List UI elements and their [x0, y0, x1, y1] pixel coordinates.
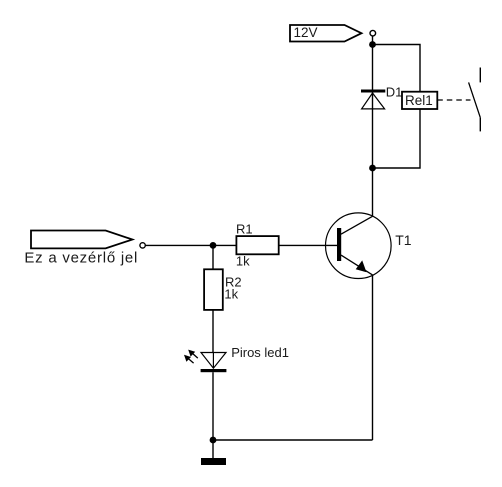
svg-text:D1: D1 — [386, 85, 403, 100]
wire input to junction — [145, 244, 213, 246]
ground — [201, 458, 226, 465]
LED Piros led1 — [201, 353, 227, 373]
wire R2 to LED — [212, 310, 214, 353]
LED light arrows — [184, 350, 198, 364]
wire R1 to base — [279, 244, 337, 246]
terminal pin 12V — [370, 30, 376, 36]
svg-text:12V: 12V — [294, 25, 318, 40]
wire ground junction to emitter — [213, 439, 373, 441]
wire 12V pin to junction — [372, 36, 374, 45]
wire relay bottom to junction — [373, 109, 421, 168]
svg-text:1k: 1k — [236, 253, 250, 268]
svg-text:Piros led1: Piros led1 — [231, 345, 289, 360]
wire junction to R2 — [212, 245, 214, 269]
junction top — [369, 41, 376, 48]
relay coil Rel1 — [402, 92, 437, 109]
svg-text:Ez a vezérlő jel: Ez a vezérlő jel — [24, 249, 138, 266]
svg-text:T1: T1 — [395, 232, 412, 248]
wire emitter down — [372, 275, 374, 440]
wire main vertical 12V to collector — [372, 45, 374, 217]
svg-text:R1: R1 — [236, 221, 253, 236]
svg-text:Rel1: Rel1 — [405, 93, 433, 108]
terminal pin input — [140, 243, 145, 248]
dashed mechanical link — [437, 99, 470, 101]
resistor R2 — [204, 269, 223, 310]
svg-text:1k: 1k — [224, 286, 238, 301]
resistor R1 — [236, 236, 278, 254]
wire junction to R1 — [213, 244, 236, 246]
wire junction to relay top — [373, 45, 421, 93]
relay contact switch — [469, 68, 481, 132]
input flag — [31, 231, 132, 249]
wire LED to ground junction — [212, 372, 214, 458]
junction base — [210, 242, 217, 249]
junction collector branch — [369, 165, 376, 172]
transistor T1 — [326, 213, 392, 279]
junction ground — [210, 437, 217, 444]
12V supply flag — [290, 25, 362, 42]
diode D1 — [361, 90, 385, 109]
